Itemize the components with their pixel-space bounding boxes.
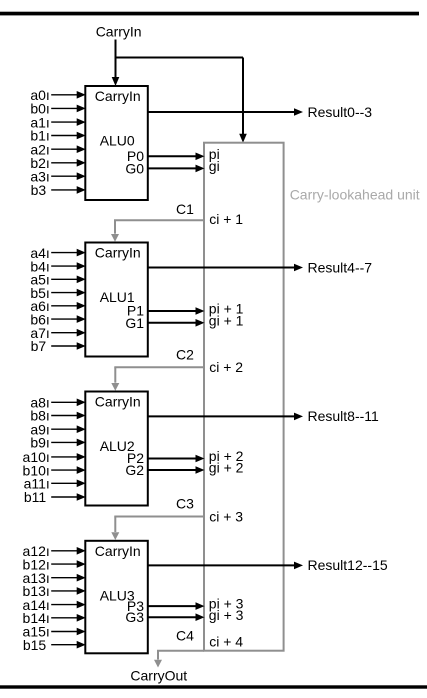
- svg-text:gi + 2: gi + 2: [209, 460, 244, 476]
- wire C3 carry to ALU3: [111, 517, 204, 541]
- wire P3 to carry-lookahead unit: [148, 602, 205, 610]
- wire Result8--11 from ALU2: [148, 413, 303, 421]
- ALU box ALU2: [85, 392, 148, 506]
- wire input a13 into ALU3: [51, 574, 85, 582]
- svg-text:CarryIn: CarryIn: [96, 24, 142, 40]
- wire G0 to carry-lookahead unit: [148, 165, 205, 173]
- svg-text:CarryOut: CarryOut: [130, 667, 187, 683]
- wire input b4 into ALU1: [51, 262, 85, 270]
- ALU box ALU3: [85, 541, 148, 654]
- wire CarryIn vertical into ALU0: [112, 40, 120, 87]
- wire C4 CarryOut: [154, 651, 204, 668]
- svg-text:Result8--11: Result8--11: [308, 408, 380, 424]
- bottom horizontal rule: [0, 685, 427, 688]
- wire input a0 into ALU0: [51, 91, 85, 99]
- wire input b13 into ALU3: [51, 587, 85, 595]
- svg-text:Result12--15: Result12--15: [308, 557, 388, 573]
- svg-text:Result0--3: Result0--3: [308, 104, 373, 120]
- wire input a12 into ALU3: [51, 547, 85, 555]
- wire input a9 into ALU2: [51, 425, 85, 433]
- wire C1 carry to ALU1: [111, 220, 204, 241]
- wire input a1 into ALU0: [51, 118, 85, 126]
- svg-text:CarryIn: CarryIn: [95, 245, 141, 261]
- wire input b1 into ALU0: [51, 132, 85, 140]
- wire P1 to carry-lookahead unit: [148, 307, 205, 315]
- svg-text:C2: C2: [176, 347, 194, 363]
- wire input a10 into ALU2: [51, 453, 85, 461]
- wire Result0--3 from ALU0: [148, 108, 303, 116]
- svg-text:CarryIn: CarryIn: [95, 88, 141, 104]
- wire G2 to carry-lookahead unit: [148, 466, 205, 474]
- svg-text:ci + 4: ci + 4: [209, 633, 243, 649]
- svg-text:G3: G3: [125, 609, 144, 625]
- svg-text:ci + 3: ci + 3: [209, 508, 243, 524]
- svg-text:CarryIn: CarryIn: [95, 543, 141, 559]
- wire Result12--15 from ALU3: [148, 562, 303, 570]
- wire input b7 into ALU1: [51, 342, 85, 350]
- wire input b5 into ALU1: [51, 289, 85, 297]
- svg-text:gi + 1: gi + 1: [209, 312, 244, 328]
- wire G1 to carry-lookahead unit: [148, 319, 205, 327]
- svg-text:G2: G2: [125, 462, 144, 478]
- wire C2 carry to ALU2: [111, 367, 204, 390]
- wire P2 to carry-lookahead unit: [148, 455, 205, 463]
- svg-text:b15: b15: [23, 637, 47, 653]
- svg-text:b3: b3: [31, 182, 47, 198]
- carry-lookahead unit box U5: [204, 143, 284, 651]
- wire P0 to carry-lookahead unit: [148, 153, 205, 161]
- wire input a14 into ALU3: [51, 601, 85, 609]
- ALU box ALU0: [85, 86, 148, 200]
- wire CarryIn branch to carry-lookahead unit: [115, 58, 247, 143]
- svg-text:Result4--7: Result4--7: [308, 259, 373, 275]
- wire input b12 into ALU3: [51, 560, 85, 568]
- svg-text:ci + 1: ci + 1: [209, 211, 243, 227]
- svg-text:C3: C3: [176, 496, 194, 512]
- svg-text:C4: C4: [176, 628, 194, 644]
- wire Result4--7 from ALU1: [148, 264, 303, 272]
- wire input b10 into ALU2: [51, 466, 85, 474]
- svg-text:b7: b7: [31, 338, 47, 354]
- svg-text:gi + 3: gi + 3: [209, 607, 244, 623]
- wire input b2 into ALU0: [51, 159, 85, 167]
- svg-text:ci + 2: ci + 2: [209, 359, 243, 375]
- wire input a4 into ALU1: [51, 249, 85, 257]
- wire input a3 into ALU0: [51, 172, 85, 180]
- wire input b11 into ALU2: [51, 493, 85, 501]
- wire input a2 into ALU0: [51, 145, 85, 153]
- wire input b14 into ALU3: [51, 614, 85, 622]
- wire input a5 into ALU1: [51, 276, 85, 284]
- wire input a8 into ALU2: [51, 399, 85, 407]
- svg-text:CarryIn: CarryIn: [95, 394, 141, 410]
- wire input a6 into ALU1: [51, 302, 85, 310]
- wire input a15 into ALU3: [51, 628, 85, 636]
- svg-text:ALU0: ALU0: [100, 133, 135, 149]
- ALU box ALU1: [85, 243, 148, 357]
- svg-text:C1: C1: [176, 201, 194, 217]
- svg-text:gi: gi: [209, 158, 220, 174]
- top horizontal rule: [0, 12, 419, 16]
- svg-text:G0: G0: [125, 160, 144, 176]
- wire input a11 into ALU2: [51, 480, 85, 488]
- wire input b9 into ALU2: [51, 439, 85, 447]
- svg-text:b11: b11: [24, 489, 47, 505]
- svg-text:G1: G1: [125, 315, 144, 331]
- wire input b3 into ALU0: [51, 186, 85, 194]
- wire input b0 into ALU0: [51, 105, 85, 113]
- wire input b6 into ALU1: [51, 315, 85, 323]
- wire input b15 into ALU3: [51, 641, 85, 649]
- wire G3 to carry-lookahead unit: [148, 613, 205, 621]
- wire input a7 into ALU1: [51, 329, 85, 337]
- wire input b8 into ALU2: [51, 412, 85, 420]
- svg-text:Carry-lookahead unit: Carry-lookahead unit: [290, 186, 420, 202]
